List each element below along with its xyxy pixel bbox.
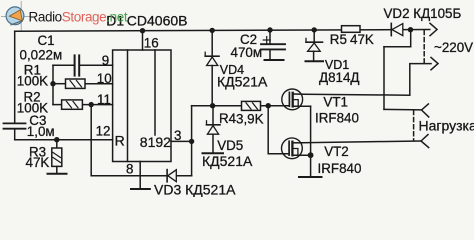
svg-text:470м: 470м bbox=[231, 45, 263, 60]
svg-text:3,9K: 3,9K bbox=[236, 111, 264, 126]
mains arrow 1 bbox=[430, 23, 437, 35]
svg-text:16: 16 bbox=[144, 35, 159, 50]
wire VT2 gate bbox=[268, 106, 289, 154]
svg-text:8: 8 bbox=[126, 161, 133, 176]
svg-text:VT2: VT2 bbox=[324, 144, 349, 159]
svg-text:R5: R5 bbox=[330, 32, 347, 47]
resistor R1 bbox=[66, 79, 86, 88]
svg-text:VD2 КД105Б: VD2 КД105Б bbox=[384, 6, 462, 21]
wire left bus bbox=[52, 65, 54, 104]
wire pin9 row bbox=[53, 64, 74, 66]
wire pin10 row bbox=[53, 83, 66, 85]
wire VT2 drain to socket B bbox=[302, 141, 421, 143]
svg-text:CD4060B: CD4060B bbox=[127, 13, 188, 29]
logo icon circle bbox=[6, 7, 24, 25]
wire pin11 row bbox=[53, 104, 62, 106]
zener VD1 bbox=[312, 27, 317, 32]
svg-text:9: 9 bbox=[102, 53, 109, 68]
ground pin8 bbox=[131, 188, 150, 190]
svg-text:3: 3 bbox=[174, 128, 181, 143]
wire mains link path bbox=[410, 30, 412, 47]
svg-text:КД521А: КД521А bbox=[202, 153, 253, 169]
svg-text:C1: C1 bbox=[38, 33, 55, 48]
load socket arrow B bbox=[421, 135, 429, 148]
logo icon horn bbox=[11, 21, 22, 25]
wire drop to VD3 row bbox=[90, 105, 92, 176]
node sources bbox=[308, 152, 314, 158]
svg-text:IRF840: IRF840 bbox=[315, 111, 359, 126]
ground under C2 bbox=[265, 59, 284, 61]
wire VD3 row bbox=[91, 175, 166, 177]
svg-text:1,0м: 1,0м bbox=[27, 124, 55, 139]
transistor VT2 bbox=[282, 138, 303, 159]
svg-text:VT1: VT1 bbox=[323, 95, 348, 110]
wire pin3 row bbox=[171, 140, 192, 142]
node C3/R3 junction bbox=[54, 137, 59, 142]
dashed connector load bbox=[413, 111, 415, 141]
svg-text:8192: 8192 bbox=[140, 134, 171, 150]
svg-text:11: 11 bbox=[97, 92, 111, 107]
svg-text:VD3 КД521А: VD3 КД521А bbox=[154, 181, 236, 197]
wire pin8 bbox=[139, 162, 141, 189]
capacitor C3 bbox=[4, 123, 26, 128]
diode VD3 bbox=[166, 170, 168, 182]
left frame wire bbox=[14, 31, 16, 123]
top rail VDD bbox=[15, 30, 430, 32]
wire pin12 row bbox=[15, 139, 113, 141]
logo text bbox=[29, 9, 128, 24]
svg-text:12: 12 bbox=[96, 123, 111, 138]
node gate split bbox=[266, 103, 271, 108]
svg-text:10: 10 bbox=[97, 71, 112, 86]
svg-text:47K: 47K bbox=[26, 155, 50, 170]
plus sign C2 bbox=[263, 37, 270, 44]
ground under VD1 bbox=[306, 60, 324, 62]
logo icon crosshair bbox=[2, 2, 31, 31]
svg-text:R4: R4 bbox=[219, 111, 237, 126]
capacitor C1 bbox=[75, 55, 80, 75]
svg-text:IRF840: IRF840 bbox=[318, 161, 362, 176]
wire pin3 vertical bbox=[191, 106, 193, 176]
load socket arrow A bbox=[422, 104, 429, 117]
dashed connector mains bbox=[423, 31, 425, 64]
svg-text:47K: 47K bbox=[350, 32, 374, 47]
svg-text:КД521А: КД521А bbox=[217, 74, 268, 90]
node bus/R1 bbox=[50, 81, 55, 86]
IC D1 CD4060B box bbox=[113, 50, 171, 162]
svg-text:Д814Д: Д814Д bbox=[319, 70, 359, 85]
node VD2 cathode bbox=[408, 27, 413, 32]
wire gate row bbox=[192, 105, 242, 107]
node pin11/drop bbox=[89, 102, 94, 107]
svg-text:VD5: VD5 bbox=[217, 138, 243, 153]
diode VD5 bbox=[212, 106, 214, 125]
svg-text:RadioStorage.net: RadioStorage.net bbox=[29, 9, 128, 24]
ground under VD5 bbox=[203, 152, 224, 154]
node VD4/VD5 bbox=[210, 103, 215, 108]
svg-text:R: R bbox=[115, 132, 125, 148]
wire VT1 source down bbox=[310, 106, 312, 176]
resistor R3 bbox=[56, 140, 58, 148]
resistor R2 bbox=[62, 100, 83, 109]
diode VD2 bbox=[390, 23, 392, 35]
svg-text:Нагрузка: Нагрузка bbox=[419, 118, 474, 134]
wire pin16 bbox=[142, 31, 144, 50]
transistor VT1 bbox=[282, 89, 303, 110]
svg-text:~220V: ~220V bbox=[434, 40, 473, 55]
mains arrow 2 bbox=[431, 57, 438, 69]
capacitor C2 bbox=[267, 27, 272, 32]
diode VD4 bbox=[211, 30, 213, 56]
svg-text:100K: 100K bbox=[17, 74, 48, 89]
wire mains pin2 bbox=[305, 64, 432, 96]
svg-text:0,022м: 0,022м bbox=[20, 48, 63, 63]
ground under R3 bbox=[56, 166, 58, 173]
ground under VT2 source bbox=[299, 176, 322, 178]
resistor R5 bbox=[342, 26, 361, 33]
resistor R4 bbox=[242, 101, 261, 110]
